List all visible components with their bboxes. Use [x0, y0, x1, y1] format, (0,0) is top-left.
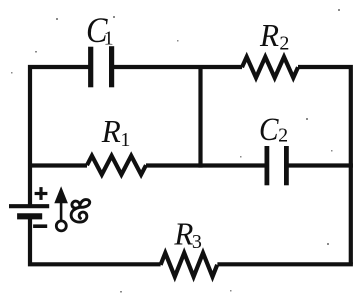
label R3: [173, 216, 201, 253]
svg-text:1: 1: [104, 28, 114, 50]
svg-text:2: 2: [278, 125, 288, 147]
capacitor C1: [91, 46, 112, 87]
emf arrow with circle tail: [54, 186, 68, 231]
wire: bottom-right: [217, 262, 353, 266]
wire: middle-right from C2 to right side: [287, 163, 353, 167]
battery (EMF source) plates: [9, 206, 49, 216]
label R1: [101, 113, 131, 151]
wire: top middle from C1 to R2: [112, 65, 242, 69]
svg-text:R: R: [173, 216, 193, 252]
svg-text:2: 2: [279, 33, 289, 55]
wire: left side below battery and bottom-left: [30, 217, 161, 264]
wire: middle-left from left side to R1: [30, 163, 87, 167]
battery minus sign: [33, 224, 47, 228]
resistor R2: [242, 57, 298, 78]
resistor R1: [87, 156, 146, 175]
svg-text:C: C: [259, 112, 279, 148]
svg-text:R: R: [259, 17, 279, 53]
wire: top-left corner and left side down to battery: [30, 67, 90, 206]
battery plus sign: [35, 187, 48, 200]
capacitor C2: [267, 146, 287, 185]
svg-text:1: 1: [120, 129, 130, 151]
wire: top-right corner and right side: [298, 67, 351, 264]
label C2: [259, 112, 288, 148]
emf script-E symbol: [71, 200, 90, 223]
wire: middle from R1 past junction to C2: [146, 163, 267, 167]
svg-text:R: R: [101, 113, 121, 149]
wire: middle vertical junction branch: [198, 65, 202, 168]
label R2: [259, 17, 289, 54]
label C1: [86, 10, 114, 50]
svg-text:3: 3: [192, 231, 202, 253]
resistor R3: [161, 253, 218, 277]
